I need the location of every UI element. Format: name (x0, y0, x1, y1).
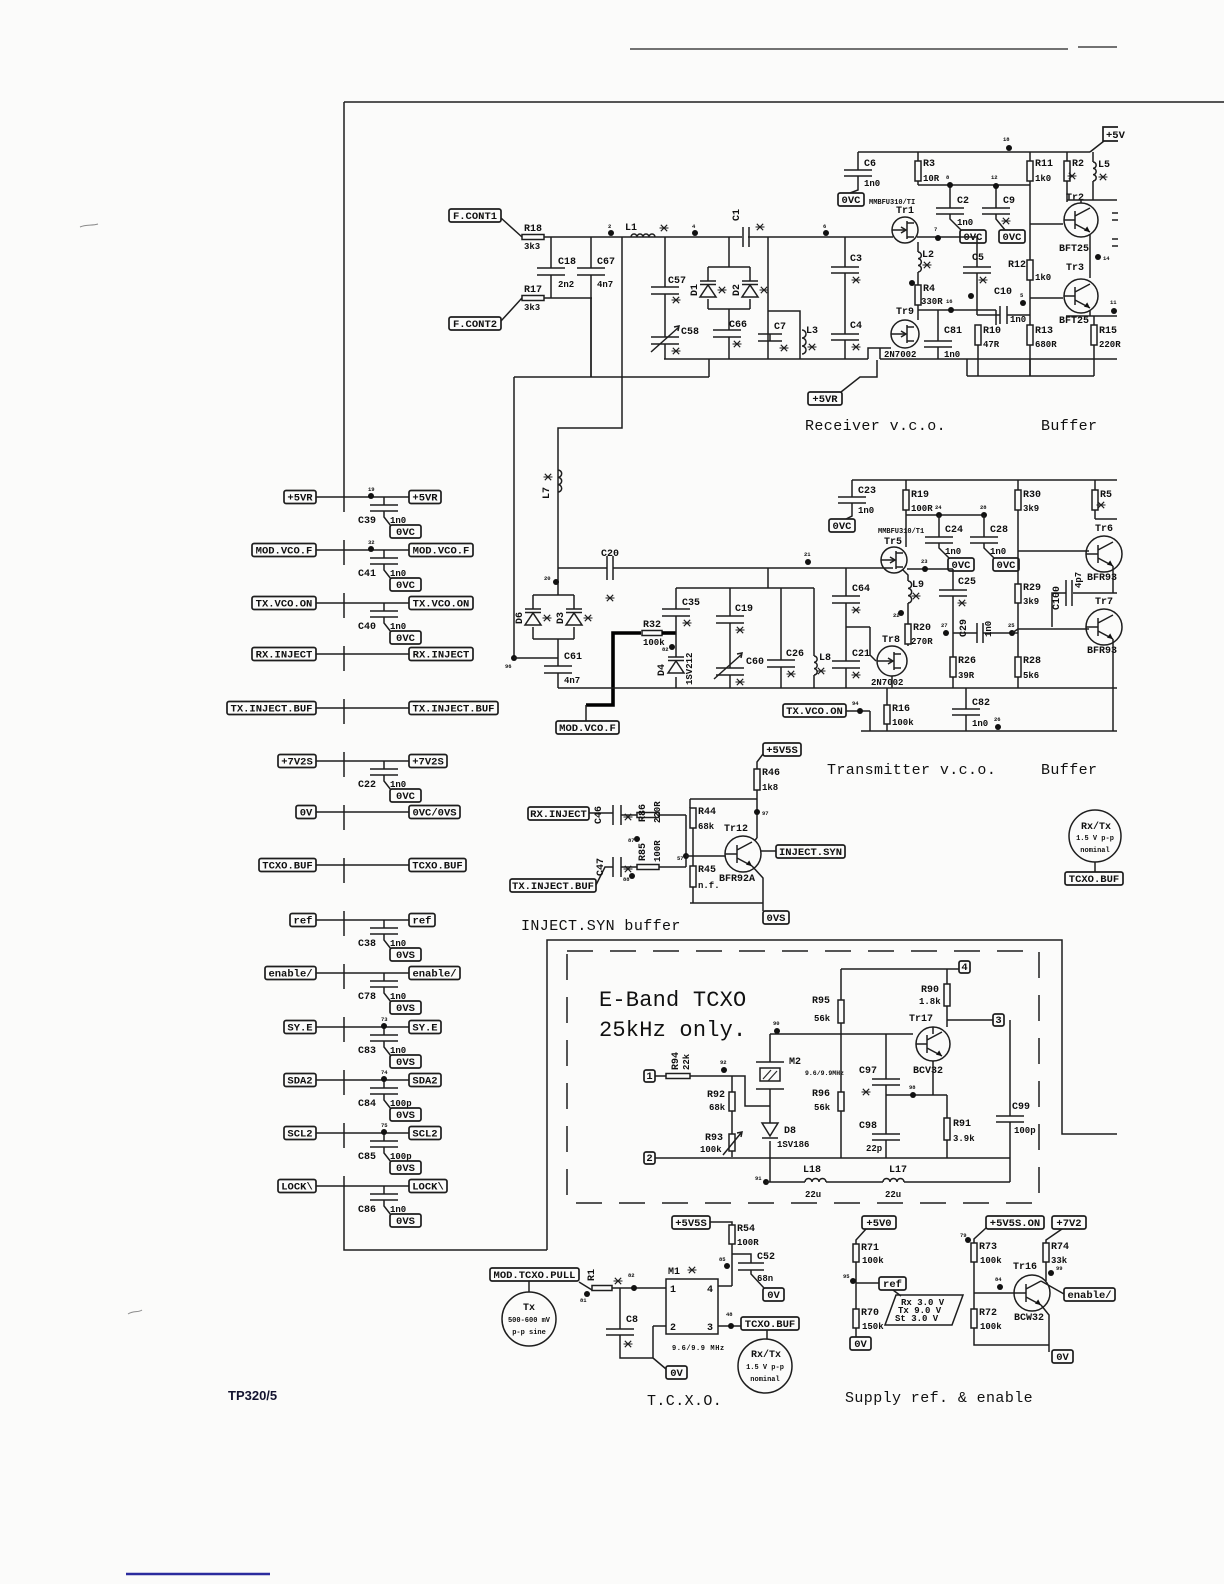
svg-text:6: 6 (823, 223, 826, 230)
svg-text:BFR92A: BFR92A (719, 874, 755, 885)
net label enable/ (left) (265, 967, 316, 981)
svg-text:C35: C35 (682, 598, 700, 609)
capacitor C19 (716, 604, 753, 633)
thick trace R32 to node 82 (662, 631, 676, 635)
resistor R3 10R (915, 159, 940, 184)
transistor Tr9 2N7002 (884, 307, 919, 360)
svg-text:RX.INJECT: RX.INJECT (530, 809, 587, 821)
node 25 (1008, 622, 1015, 636)
svg-text:Tr17: Tr17 (909, 1014, 933, 1025)
svg-text:SY.E: SY.E (412, 1022, 437, 1034)
annotation circle Rx/Tx 1.5V p-p nominal (1069, 810, 1121, 862)
svg-text:56k: 56k (814, 1014, 831, 1024)
resistor R4 330R (915, 284, 943, 307)
transmitter top rail (852, 479, 1117, 481)
svg-text:0VC: 0VC (997, 560, 1017, 572)
svg-text:+7V2S: +7V2S (412, 756, 444, 768)
svg-text:1n0: 1n0 (864, 179, 880, 189)
capacitor C99 100p (996, 1102, 1036, 1136)
svg-text:Buffer: Buffer (1041, 762, 1097, 779)
wire Tr12 emitter to 0VS (752, 866, 763, 911)
svg-text:100k: 100k (862, 1256, 884, 1266)
capacitor C1 (732, 209, 765, 247)
node 48 (726, 1311, 734, 1329)
svg-text:9.6/9.9MHz: 9.6/9.9MHz (805, 1070, 844, 1077)
svg-text:ref: ref (883, 1279, 902, 1291)
capacitor C26 (767, 649, 804, 677)
supply label +5V5S.ON (986, 1216, 1044, 1230)
wire (383, 497, 385, 505)
net label TCXO.BUF (left) (259, 859, 316, 873)
svg-text:Tr12: Tr12 (724, 824, 748, 835)
capacitor C8 (606, 1315, 638, 1347)
net label enable/ (1064, 1288, 1115, 1302)
wire R72 to ground rail (974, 1328, 1049, 1345)
svg-text:1.8k: 1.8k (919, 997, 941, 1007)
wire L2 to R4 (917, 272, 919, 285)
svg-text:C3: C3 (850, 254, 862, 265)
wire R46 to collector loop (690, 790, 757, 838)
svg-text:+7V2S: +7V2S (281, 756, 313, 768)
svg-text:R16: R16 (892, 704, 910, 715)
node 95 (843, 1273, 856, 1284)
svg-text:16: 16 (946, 298, 953, 305)
node 87 (628, 836, 640, 844)
svg-text:C46: C46 (594, 806, 605, 824)
wire +7V2 to R74 (1046, 1229, 1062, 1243)
svg-text:Tr1: Tr1 (896, 206, 914, 217)
clipped coupling capacitor (top) (1112, 213, 1118, 220)
svg-text:SDA2: SDA2 (287, 1075, 312, 1087)
transistor Tr8 2N7002 (871, 635, 907, 688)
node 12 (991, 174, 999, 189)
node 22 (893, 610, 904, 619)
ground label 0V (R70) (850, 1337, 871, 1351)
oscillator module M1 (666, 1267, 725, 1353)
svg-text:220R: 220R (653, 801, 663, 823)
svg-text:57: 57 (677, 855, 684, 862)
wire (316, 919, 409, 921)
capacitor C40 1n0 (358, 611, 406, 633)
svg-text:Tx: Tx (523, 1303, 535, 1314)
resistor R12 1k0 (1008, 260, 1051, 283)
page top rule (630, 47, 1117, 49)
inductor L17 22u (883, 1165, 907, 1200)
capacitor C21 (832, 649, 870, 678)
svg-text:C64: C64 (852, 584, 870, 595)
resistor R45 n.f. (690, 865, 720, 891)
svg-text:D6: D6 (515, 612, 526, 624)
wire C19 C60 chain (729, 588, 731, 688)
svg-text:1n0: 1n0 (957, 218, 973, 228)
svg-text:Rx/Tx: Rx/Tx (751, 1349, 781, 1361)
svg-text:1n0: 1n0 (1010, 315, 1026, 325)
wire (384, 1200, 391, 1215)
svg-text:St 3.0 V: St 3.0 V (895, 1314, 939, 1324)
svg-text:Receiver v.c.o.: Receiver v.c.o. (805, 418, 946, 435)
TX.VCO.ON feed (843, 711, 1117, 731)
svg-text:0VS: 0VS (767, 913, 786, 925)
svg-text:TX.VCO.ON: TX.VCO.ON (256, 598, 313, 610)
wire R13 bottom (1029, 345, 1031, 376)
svg-text:L18: L18 (803, 1165, 821, 1176)
svg-text:MOD.VCO.F: MOD.VCO.F (256, 545, 313, 557)
wire C28 branch (984, 515, 995, 559)
wire R73 to base node (974, 1262, 1015, 1309)
node 99 (1048, 1265, 1063, 1276)
wire C100 row (1012, 593, 1117, 633)
ground label 0VC (C23) (829, 519, 855, 533)
svg-text:0V: 0V (670, 1368, 683, 1380)
svg-text:R28: R28 (1023, 656, 1041, 667)
svg-text:L7: L7 (542, 487, 553, 499)
svg-text:C4: C4 (850, 321, 862, 332)
svg-text:C20: C20 (601, 549, 619, 560)
capacitor C24 1n0 (925, 525, 963, 557)
svg-text:90: 90 (773, 1020, 780, 1027)
node 98 (909, 1084, 916, 1098)
svg-text:1SV212: 1SV212 (685, 653, 695, 685)
wire L5 and +5 corner (1090, 141, 1104, 200)
leader C2 to 0VC (950, 214, 961, 230)
node 20 (544, 575, 559, 585)
svg-text:C18: C18 (558, 257, 576, 268)
wire C81 branch (937, 310, 939, 359)
svg-text:BFT25: BFT25 (1059, 244, 1089, 255)
svg-text:TCXO.BUF: TCXO.BUF (745, 1319, 795, 1331)
pin 3 (993, 1014, 1004, 1027)
wire (316, 972, 409, 974)
svg-text:R15: R15 (1099, 326, 1117, 337)
svg-text:500-600 mV: 500-600 mV (508, 1317, 551, 1325)
svg-text:R86: R86 (638, 804, 649, 822)
svg-text:C82: C82 (972, 698, 990, 709)
wire TCXO.BUF to circle (766, 1330, 768, 1339)
wire pin1 row (655, 1076, 770, 1106)
wire (316, 1026, 409, 1028)
node 74 (381, 1069, 388, 1082)
node 5 (1020, 292, 1026, 306)
capacitor C82 1n0 (952, 698, 990, 729)
net label ref (right) (409, 914, 435, 928)
inductor L2 (918, 250, 934, 272)
wire (383, 761, 385, 769)
varactor D6 (515, 609, 552, 625)
svg-text:0VC: 0VC (396, 580, 416, 592)
E-Band TCXO dashed box (567, 951, 1039, 1203)
node 19 (368, 486, 375, 499)
net label 0V (left) (296, 806, 316, 820)
wire R20 to Tr8 (907, 644, 909, 646)
pin 2 (644, 1152, 655, 1165)
svg-text:p-p sine: p-p sine (512, 1329, 546, 1337)
svg-text:TP320/5: TP320/5 (228, 1388, 277, 1403)
inner resonator rail (676, 568, 814, 588)
svg-text:94: 94 (852, 700, 859, 707)
svg-text:C24: C24 (945, 525, 963, 536)
svg-text:C66: C66 (729, 320, 747, 331)
inductor L18 22u (803, 1165, 826, 1200)
wire R92 R93 column (731, 1076, 733, 1157)
varactor D2 (732, 281, 769, 297)
ground label 0VC (C2) (960, 230, 986, 244)
ground label 0VC (390, 525, 421, 539)
svg-text:RX.INJECT: RX.INJECT (256, 649, 313, 661)
svg-text:C2: C2 (957, 196, 969, 207)
svg-text:3: 3 (995, 1015, 1001, 1027)
wire Tr12 collector link (755, 838, 757, 840)
main schematic border left (solid top) (343, 102, 345, 487)
svg-text:100R: 100R (911, 504, 933, 514)
ground label 0VC (C28) (993, 558, 1019, 572)
svg-text:0VS: 0VS (396, 1003, 415, 1015)
svg-text:n.f.: n.f. (698, 881, 720, 891)
svg-text:1n0: 1n0 (972, 719, 988, 729)
inductor L7 (542, 470, 562, 499)
capacitor C52 68n (738, 1252, 775, 1284)
wire R4 to Tr9 drain and C81 node (918, 305, 996, 320)
svg-text:R90: R90 (921, 985, 939, 996)
inner solid box around E-Band TCXO (547, 940, 1117, 1250)
svg-text:C5: C5 (972, 253, 984, 264)
svg-text:R70: R70 (861, 1308, 879, 1319)
resistor R13 680R (1027, 325, 1057, 350)
svg-text:+5VR: +5VR (412, 492, 438, 504)
node 94 (852, 700, 863, 714)
wire pin2 rail (655, 1157, 1010, 1159)
svg-text:R5: R5 (1100, 490, 1112, 501)
net label 0VC/0VS (right) (409, 806, 460, 820)
svg-text:C61: C61 (564, 652, 582, 663)
wire (316, 1079, 409, 1081)
svg-text:4: 4 (707, 1285, 713, 1296)
capacitor C5 (963, 253, 991, 283)
svg-text:L9: L9 (912, 580, 924, 591)
wire Tr2 collector out (1067, 200, 1117, 203)
resistor R72 100k (971, 1308, 1002, 1332)
svg-text:4n7: 4n7 (564, 676, 580, 686)
annotation parallelogram Rx/Tx/St voltages (885, 1295, 963, 1325)
svg-text:C25: C25 (958, 577, 976, 588)
svg-text:150k: 150k (862, 1322, 884, 1332)
svg-text:3k9: 3k9 (1023, 504, 1039, 514)
net label enable/ (right) (409, 967, 460, 981)
wire (384, 1094, 391, 1109)
wire to C20 and varactor pair (558, 568, 893, 595)
node 79 (960, 1232, 971, 1243)
wire TCXO base row (770, 1033, 913, 1035)
wire (501, 218, 522, 237)
node 15 (968, 293, 974, 299)
svg-text:100k: 100k (700, 1145, 722, 1155)
wire C82 branch (965, 688, 967, 731)
svg-text:C1: C1 (732, 209, 743, 221)
wire R5 (1095, 480, 1117, 519)
wire pin3 to TCXO.BUF (718, 1325, 741, 1327)
capacitor C22 1n0 (358, 769, 406, 791)
wire (384, 775, 391, 790)
svg-text:0VC: 0VC (396, 527, 416, 539)
svg-text:C19: C19 (735, 604, 753, 615)
node 28 (980, 504, 987, 518)
net label TX.INJECT.BUF (inject) (510, 879, 596, 893)
net label +7V2S (left) (278, 755, 316, 769)
net label +5VR (left) (284, 491, 316, 505)
wire (383, 1027, 385, 1035)
trimmer capacitor C60 (716, 657, 764, 685)
capacitor C7 (758, 322, 789, 351)
capacitor C29 1n0 (959, 619, 994, 643)
wire (384, 987, 391, 1002)
svg-text:Tr7: Tr7 (1095, 597, 1113, 608)
svg-text:100k: 100k (980, 1322, 1002, 1332)
node 21 (804, 551, 811, 565)
svg-text:25: 25 (1008, 622, 1015, 629)
net label TX.VCO.ON (right) (409, 597, 473, 611)
resistor R86 220R (637, 801, 663, 823)
svg-text:0V: 0V (767, 1290, 780, 1302)
svg-text:SCL2: SCL2 (287, 1128, 312, 1140)
svg-text:92: 92 (720, 1059, 727, 1066)
wire +5V5S to R54 (710, 1222, 732, 1225)
svg-text:M2: M2 (789, 1057, 801, 1068)
node 27 (941, 622, 949, 636)
capacitor C4 (831, 321, 862, 350)
supply label +7V2 (1052, 1216, 1086, 1230)
svg-text:1.5 V p-p: 1.5 V p-p (746, 1364, 784, 1372)
ground label 0VC (390, 631, 421, 645)
svg-text:MMBFU310/T1: MMBFU310/T1 (878, 528, 924, 536)
resistor R26 39R (950, 656, 976, 681)
svg-text:0VS: 0VS (396, 1216, 415, 1228)
resistor R93 100k (700, 1133, 735, 1155)
net label SDA2 (left) (284, 1074, 316, 1088)
svg-text:R73: R73 (979, 1242, 997, 1253)
wire R74 to collector node (1041, 1262, 1064, 1294)
capacitor C83 1n0 (358, 1035, 406, 1057)
wire (383, 603, 385, 611)
wire R54 down to pin4 (718, 1244, 732, 1286)
varactor D3 (556, 609, 593, 625)
net label TCXO.BUF (right) (1065, 872, 1123, 886)
scan speck (lower left) (128, 1310, 142, 1314)
svg-text:SCL2: SCL2 (412, 1128, 437, 1140)
node 32 (368, 539, 375, 552)
svg-text:C28: C28 (990, 525, 1008, 536)
wire Tr5 source chain (903, 569, 953, 624)
wire (544, 297, 592, 299)
resistor R94 22k (horizontal) (666, 1052, 692, 1079)
ground label 0V (C52) (763, 1288, 784, 1302)
net label TX.VCO.ON (vco) (783, 704, 846, 718)
transistor Tr1 MMBFU310 (892, 206, 918, 243)
svg-text:0VS: 0VS (396, 950, 415, 962)
svg-text:R4: R4 (923, 284, 935, 295)
capacitor C6 1n0 (844, 159, 880, 189)
svg-text:0V: 0V (300, 807, 313, 819)
wire R45 (690, 856, 763, 903)
resistor R96 56k (812, 1089, 844, 1113)
capacitor C18 2n2 (537, 257, 576, 290)
svg-text:R12: R12 (1008, 260, 1026, 271)
svg-text:1n0: 1n0 (990, 547, 1006, 557)
node 88 (623, 873, 635, 883)
wire R1 to M1 pin1 (612, 1287, 666, 1289)
wire (316, 707, 409, 709)
wire (544, 236, 665, 238)
svg-text:95: 95 (843, 1273, 850, 1280)
transistor Tr16 BCW32 (1013, 1262, 1050, 1324)
transistor Tr2 BFT25 (1059, 193, 1098, 255)
resistor R10 47R (975, 325, 1001, 350)
wire +5V5S to R46 (757, 754, 763, 769)
wire L8 chain (813, 588, 815, 688)
svg-text:3.9k: 3.9k (953, 1134, 975, 1144)
svg-text:100R: 100R (737, 1238, 759, 1248)
resistor R85 100R (637, 840, 663, 870)
svg-text:BCW32: BCW32 (1014, 1313, 1044, 1324)
wire Tr17 emitter (932, 1061, 934, 1095)
resistor R74 33k (1043, 1242, 1069, 1266)
wire C99 column (1009, 1020, 1011, 1158)
svg-text:R30: R30 (1023, 490, 1041, 501)
svg-text:C47: C47 (596, 858, 607, 876)
wire C67 branch (590, 237, 592, 377)
svg-text:TX.VCO.ON: TX.VCO.ON (413, 598, 470, 610)
net label ref (left) (290, 914, 316, 928)
leader ref to parallelogram (893, 1290, 901, 1296)
svg-text:22p: 22p (866, 1144, 882, 1154)
capacitor C20 (601, 549, 619, 601)
thick trace MOD.VCO.F (586, 633, 641, 705)
svg-text:96: 96 (505, 663, 512, 670)
supply label +5V5S (inject) (763, 743, 801, 757)
resistor R90 1.8k (919, 984, 950, 1007)
receiver buffer lower return rail (967, 359, 1094, 376)
svg-text:4: 4 (961, 962, 967, 974)
svg-text:C29: C29 (959, 619, 970, 637)
svg-text:100k: 100k (892, 718, 914, 728)
svg-text:R95: R95 (812, 996, 830, 1007)
net label SCL2 (left) (284, 1127, 316, 1141)
svg-text:D3: D3 (556, 612, 567, 624)
svg-text:BFT25: BFT25 (1059, 316, 1089, 327)
svg-text:L8: L8 (819, 653, 831, 664)
pin 4 (959, 961, 970, 974)
svg-text:MOD.VCO.F: MOD.VCO.F (413, 545, 470, 557)
node 75 (381, 1122, 388, 1135)
capacitor C98 22p (859, 1121, 900, 1154)
svg-text:R1: R1 (587, 1269, 598, 1281)
wire (383, 1080, 385, 1088)
net label INJECT.SYN (776, 845, 845, 859)
wire C5 branch (976, 238, 978, 315)
svg-text:74: 74 (381, 1069, 388, 1076)
svg-text:INJECT.SYN buffer: INJECT.SYN buffer (521, 918, 681, 935)
receiver top rail +5VR (858, 151, 1090, 153)
svg-text:+5V0: +5V0 (866, 1218, 891, 1230)
wire C25 chain (952, 569, 954, 633)
svg-text:0V: 0V (854, 1339, 867, 1351)
svg-text:C58: C58 (681, 327, 699, 338)
varactor pair D6 D3 frame (533, 595, 574, 688)
net label +5VR (right) (409, 491, 441, 505)
svg-text:0VS: 0VS (396, 1163, 415, 1175)
svg-text:1k8: 1k8 (762, 783, 778, 793)
inductor L8 (814, 653, 831, 675)
net label RX.INJECT (inject) (528, 807, 589, 821)
wire C7 box (768, 237, 800, 359)
